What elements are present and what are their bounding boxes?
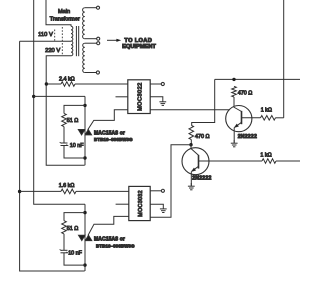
wire 2.4k left lead bbox=[46, 83, 61, 85]
wire triac2 gate to MOC2 pin bbox=[88, 216, 129, 235]
wire triac Q4 vertical MT2-MT1 bbox=[84, 204, 86, 271]
svg-text:MOC3022: MOC3022 bbox=[138, 82, 144, 111]
svg-text:MOC3032: MOC3032 bbox=[138, 190, 144, 217]
transformer core bbox=[75, 26, 77, 56]
wire MOC2 pin5 to ground bbox=[150, 203, 163, 205]
wire 220V dashed marker bbox=[61, 27, 63, 56]
triac Q3 bbox=[78, 130, 85, 135]
svg-text:2N2222: 2N2222 bbox=[192, 175, 211, 181]
transistor Q2 2N2222 bbox=[182, 148, 209, 175]
svg-text:BTB16–800BW3G: BTB16–800BW3G bbox=[94, 137, 133, 142]
triac Q4 bbox=[79, 235, 86, 240]
svg-text:1.6 kΩ: 1.6 kΩ bbox=[59, 183, 75, 189]
resistor R3 51ohm bbox=[62, 113, 67, 126]
wire primary tap bbox=[20, 40, 71, 42]
wire Q2 collector lead bbox=[190, 145, 192, 149]
svg-text:BTB16–800BW3G: BTB16–800BW3G bbox=[96, 244, 135, 249]
svg-text:220 V: 220 V bbox=[45, 48, 60, 54]
terminal secondary top bbox=[96, 6, 99, 9]
wire triac Q3 vertical MT2-MT1 bbox=[84, 96, 86, 165]
wire 1k upper to rail bbox=[276, 117, 284, 119]
resistor R2 1.6k bbox=[61, 189, 76, 194]
svg-text:1 kΩ: 1 kΩ bbox=[261, 107, 272, 113]
svg-text:1 kΩ: 1 kΩ bbox=[260, 152, 271, 158]
wire 2.4k to MOC1 pin1 bbox=[75, 83, 128, 85]
wire snubber1 top bbox=[64, 105, 85, 113]
svg-text:110 V: 110 V bbox=[38, 32, 53, 38]
ground MOC2 bbox=[162, 204, 164, 209]
arrow to load bbox=[107, 39, 117, 41]
svg-text:10 nF: 10 nF bbox=[68, 250, 82, 256]
wire triac1 MT2 feed bbox=[34, 95, 85, 97]
op-amp U2 MOC3032 box bbox=[129, 186, 150, 220]
svg-text:TO LOAD: TO LOAD bbox=[124, 38, 152, 44]
wire snubber1 mid bbox=[63, 127, 65, 143]
wire MOC2 pin4 to Q2 collector bbox=[150, 145, 191, 218]
wire Q1 base to 1k bbox=[242, 117, 261, 119]
wire MOC2 pin2 stub bbox=[116, 203, 129, 205]
ground Q1 emitter bbox=[233, 140, 235, 143]
node junction snubber1 bottom bbox=[83, 156, 86, 159]
resistor R8 51ohm lower bbox=[62, 221, 67, 234]
svg-text:51 Ω: 51 Ω bbox=[67, 226, 79, 232]
svg-text:2.4 kΩ: 2.4 kΩ bbox=[59, 76, 75, 82]
wire secondary mid-upper lead bbox=[85, 38, 97, 40]
node junction Q2 collector bbox=[189, 143, 192, 146]
ground MOC1 bbox=[162, 97, 164, 102]
wire cross-couple Q1 to 470-2 bbox=[192, 79, 215, 125]
capacitor C2 10nF bbox=[61, 249, 68, 251]
svg-text:MAC15A8 or: MAC15A8 or bbox=[94, 237, 125, 243]
resistor R1 2.4k bbox=[61, 82, 75, 87]
wire MOC2 pin6 to terminal bbox=[150, 190, 161, 192]
terminal MOC1 trigger bbox=[161, 82, 164, 85]
wire snubber1 bottom bbox=[64, 146, 85, 159]
svg-text:470 Ω: 470 Ω bbox=[238, 91, 253, 97]
terminal secondary bottom bbox=[96, 71, 99, 74]
wire primary bottom lead bbox=[46, 55, 71, 57]
node junction bus-triac1 MT2 bbox=[32, 95, 35, 98]
wire 1.6k to MOC2 pin1 bbox=[76, 190, 129, 192]
node junction snubber2 top bbox=[83, 211, 86, 214]
terminal MOC2 trigger bbox=[161, 189, 164, 192]
transformer T1 secondary lower winding bbox=[83, 43, 85, 72]
wire snubber2 bottom bbox=[64, 253, 85, 265]
resistor R6 1k upper bbox=[261, 116, 276, 121]
node junction 470-1 top bbox=[232, 78, 235, 81]
node junction snubber2 bottom bbox=[83, 263, 86, 266]
node junction snubber1 top bbox=[83, 104, 86, 107]
resistor R5 470ohm lower bbox=[189, 125, 194, 139]
transistor Q1 2N2222 bbox=[226, 106, 252, 132]
transformer T1 secondary upper winding bbox=[83, 8, 85, 39]
transformer T1 primary winding bbox=[71, 26, 73, 56]
wire MOC1 pin2 stub bbox=[116, 96, 128, 98]
terminal secondary mid-upper bbox=[97, 37, 100, 40]
svg-text:Main: Main bbox=[58, 9, 70, 15]
wire 1k lower to edge bbox=[276, 160, 300, 162]
node junction 1.6k tap bbox=[18, 190, 21, 193]
svg-text:470 Ω: 470 Ω bbox=[195, 134, 210, 140]
wire 470-1 bottom lead bbox=[233, 97, 235, 107]
wire 110V tap dashed marker bbox=[54, 30, 56, 41]
svg-text:Transformer: Transformer bbox=[50, 17, 80, 23]
wire snubber2 mid bbox=[63, 234, 65, 250]
wire primary top lead from AC line bbox=[46, 0, 71, 26]
svg-text:MAC15A8 or: MAC15A8 or bbox=[94, 131, 125, 137]
resistor R4 470ohm upper bbox=[232, 86, 237, 97]
svg-text:10 nF: 10 nF bbox=[70, 143, 84, 149]
wire MOC1 pin5 to ground bbox=[150, 96, 163, 98]
wire MOC1 pin6 to terminal bbox=[150, 83, 161, 85]
wire snubber2 top bbox=[64, 213, 85, 221]
terminal secondary mid-lower bbox=[97, 42, 100, 45]
wire bus line (x=19.6) tap to triac2 MT1 bbox=[20, 41, 85, 271]
wire 1.6k left lead bbox=[20, 190, 61, 192]
wire secondary bottom lead bbox=[85, 72, 97, 74]
wire triac1 gate to MOC1 pin bbox=[88, 110, 128, 130]
wire Q2 base to 1k lower bbox=[199, 160, 263, 162]
wire Q1 emitter down bbox=[233, 128, 235, 143]
wire MOC1 pin4 to Q1 collector bbox=[150, 109, 229, 111]
wire bus neutral (x=33.7) bbox=[34, 0, 85, 204]
wire +rail vertical right bbox=[283, 0, 285, 118]
op-amp U1 MOC3022 box bbox=[128, 80, 150, 114]
wire 470-2 bottom lead bbox=[190, 140, 192, 145]
wire bus hot (x=46.2) bbox=[46, 56, 84, 165]
svg-text:2N2222: 2N2222 bbox=[238, 134, 257, 140]
capacitor C1 10nF bbox=[61, 142, 68, 144]
wire secondary top lead bbox=[85, 7, 97, 9]
wire collector supply top bbox=[215, 78, 300, 80]
ground Q2 emitter bbox=[190, 183, 192, 186]
svg-text:EQUIPMENT: EQUIPMENT bbox=[122, 44, 156, 50]
wire secondary mid-lower lead bbox=[85, 42, 97, 44]
wire Q2 emitter down bbox=[190, 172, 192, 186]
resistor R7 1k lower bbox=[262, 159, 276, 164]
node junction 2.4k tap bbox=[45, 82, 48, 85]
svg-text:51 Ω: 51 Ω bbox=[67, 118, 79, 124]
